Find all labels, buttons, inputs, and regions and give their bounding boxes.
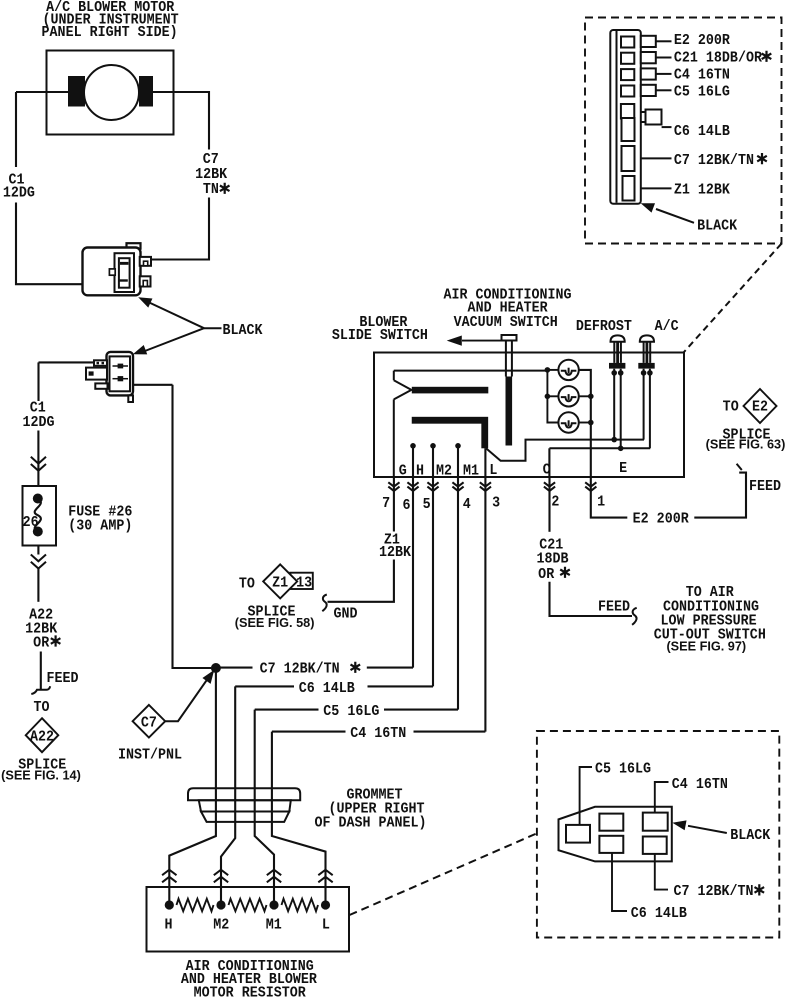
svg-text:E2 200R: E2 200R: [674, 32, 730, 49]
svg-text:Z1: Z1: [272, 575, 288, 592]
svg-text:2: 2: [551, 494, 559, 511]
svg-text:A22: A22: [30, 729, 54, 746]
svg-text:6: 6: [402, 497, 410, 514]
svg-text:M2: M2: [213, 917, 229, 934]
svg-text:E2 200R: E2 200R: [633, 511, 689, 528]
svg-text:1: 1: [597, 494, 605, 511]
svg-text:DEFROST: DEFROST: [576, 318, 632, 335]
svg-text:C7 12BK/TN: C7 12BK/TN: [674, 152, 754, 169]
svg-text:12DG: 12DG: [3, 185, 35, 202]
svg-text:C6 14LB: C6 14LB: [299, 680, 355, 697]
svg-text:M1: M1: [463, 463, 479, 480]
svg-text:C: C: [543, 462, 551, 479]
svg-text:C7 12BK/TN: C7 12BK/TN: [260, 661, 340, 678]
svg-text:C21 18DB/OR: C21 18DB/OR: [674, 50, 762, 67]
svg-text:BLACK: BLACK: [697, 218, 737, 235]
svg-text:OF DASH PANEL): OF DASH PANEL): [314, 815, 426, 832]
svg-text:M1: M1: [266, 917, 282, 934]
svg-text:A/C: A/C: [655, 318, 679, 335]
svg-text:13: 13: [296, 575, 312, 592]
svg-text:C5 16LG: C5 16LG: [595, 761, 651, 778]
svg-text:OR: OR: [538, 566, 554, 583]
svg-text:C5 16LG: C5 16LG: [323, 703, 379, 720]
svg-text:VACUUM SWITCH: VACUUM SWITCH: [454, 315, 558, 332]
svg-text:TO: TO: [33, 699, 49, 716]
svg-text:TO: TO: [723, 399, 739, 416]
svg-text:E: E: [619, 460, 627, 477]
svg-text:C5 16LG: C5 16LG: [674, 84, 730, 101]
svg-text:L: L: [489, 462, 497, 479]
svg-text:Z1 12BK: Z1 12BK: [674, 182, 730, 199]
svg-text:INST/PNL: INST/PNL: [118, 747, 182, 764]
svg-text:GND: GND: [333, 606, 357, 623]
svg-text:C6 14LB: C6 14LB: [631, 905, 687, 922]
svg-text:G: G: [399, 463, 407, 480]
svg-text:3: 3: [492, 495, 500, 512]
svg-text:5: 5: [423, 496, 431, 513]
svg-text:E2: E2: [752, 399, 768, 416]
svg-text:26: 26: [23, 514, 39, 531]
svg-text:18DB: 18DB: [536, 551, 568, 568]
svg-text:C7: C7: [141, 715, 157, 732]
svg-text:4: 4: [463, 496, 471, 513]
svg-text:H: H: [416, 463, 424, 480]
svg-text:PANEL RIGHT SIDE): PANEL RIGHT SIDE): [42, 24, 178, 41]
svg-text:12BK: 12BK: [379, 545, 411, 562]
svg-text:C7 12BK/TN: C7 12BK/TN: [674, 884, 754, 901]
svg-text:7: 7: [382, 495, 390, 512]
svg-text:12DG: 12DG: [22, 414, 54, 431]
svg-text:C4 16TN: C4 16TN: [672, 776, 728, 793]
svg-text:(30 AMP): (30 AMP): [68, 518, 132, 535]
svg-text:MOTOR RESISTOR: MOTOR RESISTOR: [194, 985, 307, 1000]
svg-text:BLACK: BLACK: [730, 827, 770, 844]
svg-text:TO: TO: [239, 576, 255, 593]
svg-text:(SEE FIG. 97): (SEE FIG. 97): [666, 640, 746, 654]
svg-text:(SEE FIG. 58): (SEE FIG. 58): [235, 616, 315, 630]
svg-text:M2: M2: [436, 463, 452, 480]
svg-text:(SEE FIG. 14): (SEE FIG. 14): [1, 768, 81, 782]
svg-text:L: L: [322, 917, 330, 934]
svg-text:C6 14LB: C6 14LB: [674, 124, 730, 141]
svg-text:(SEE FIG. 63): (SEE FIG. 63): [706, 438, 786, 452]
svg-text:SLIDE SWITCH: SLIDE SWITCH: [332, 327, 428, 344]
svg-text:C4 16TN: C4 16TN: [674, 67, 730, 84]
svg-text:H: H: [164, 917, 172, 934]
svg-text:TN: TN: [203, 181, 219, 198]
svg-text:FEED: FEED: [598, 599, 630, 616]
svg-text:FEED: FEED: [46, 670, 78, 687]
svg-text:OR: OR: [33, 635, 49, 652]
svg-text:FEED: FEED: [749, 478, 781, 495]
svg-text:BLACK: BLACK: [223, 323, 263, 340]
svg-text:C4 16TN: C4 16TN: [350, 725, 406, 742]
